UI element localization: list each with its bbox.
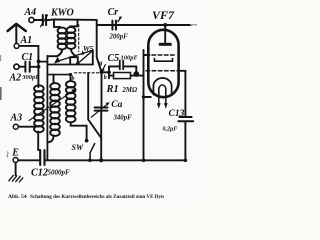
svg-text:W5: W5: [83, 44, 94, 53]
svg-text:E: E: [11, 148, 19, 159]
svg-text:A1: A1: [20, 35, 33, 46]
svg-text:200pF: 200pF: [109, 33, 129, 40]
svg-text:C13: C13: [169, 109, 185, 119]
svg-text:A2: A2: [9, 73, 22, 84]
svg-text:Cr: Cr: [108, 7, 119, 18]
svg-text:SW: SW: [72, 143, 84, 152]
svg-text:g: g: [98, 61, 102, 67]
svg-text:VF7: VF7: [152, 8, 175, 22]
svg-text:C12: C12: [31, 167, 48, 178]
svg-text:C1: C1: [22, 52, 34, 63]
svg-text:b: b: [82, 51, 85, 57]
svg-text:b: b: [104, 75, 107, 81]
svg-text:R1: R1: [106, 84, 119, 95]
svg-text:2MΩ: 2MΩ: [122, 87, 138, 94]
svg-text:b: b: [72, 76, 75, 82]
svg-text:0,2μF: 0,2μF: [163, 127, 178, 133]
svg-text:Schaltung des Kurzwellenbereic: Schaltung des Kurzwellenbereichs als Zus…: [30, 194, 164, 200]
svg-text:C5: C5: [108, 53, 120, 64]
svg-text:A4: A4: [24, 7, 37, 18]
svg-text:A3: A3: [10, 112, 23, 123]
svg-text:100pF: 100pF: [121, 55, 139, 62]
svg-text:300pF: 300pF: [21, 74, 40, 81]
svg-text:KWO: KWO: [50, 8, 74, 19]
svg-text:340pF: 340pF: [113, 115, 133, 122]
svg-text:Ca: Ca: [111, 100, 122, 110]
svg-text:5000pF: 5000pF: [48, 169, 71, 177]
svg-text:Abb. 54: Abb. 54: [8, 194, 27, 200]
